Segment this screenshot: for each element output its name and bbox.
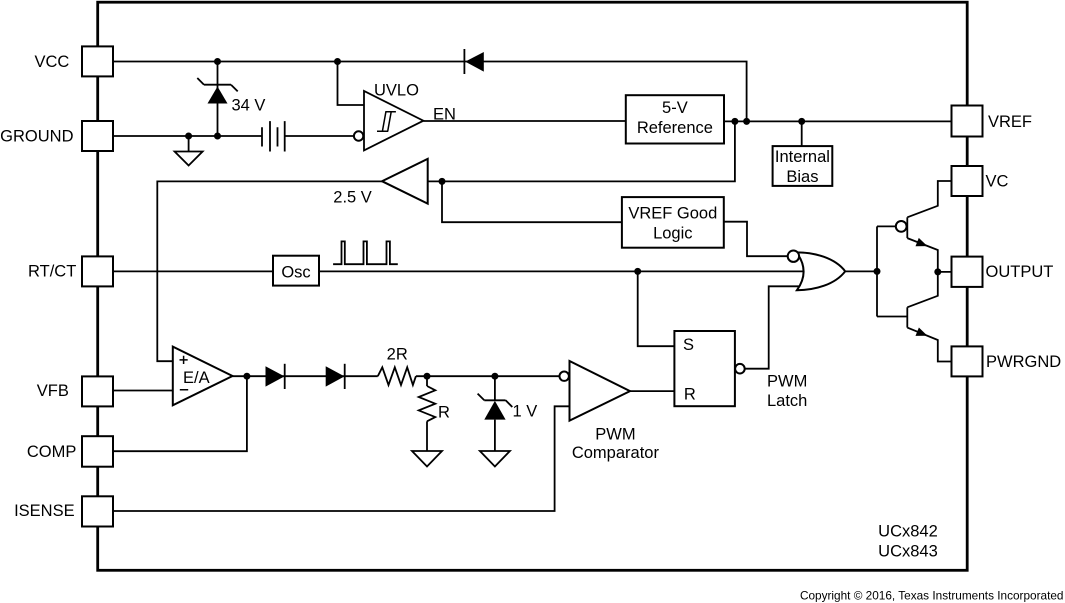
svg-text:Internal: Internal	[775, 148, 830, 166]
svg-text:RT/CT: RT/CT	[28, 263, 76, 281]
svg-text:OUTPUT: OUTPUT	[986, 263, 1054, 281]
svg-text:Comparator: Comparator	[572, 444, 660, 462]
svg-text:34 V: 34 V	[232, 96, 266, 114]
svg-text:Osc: Osc	[281, 263, 310, 281]
svg-text:PWM: PWM	[595, 425, 635, 443]
svg-text:ISENSE: ISENSE	[14, 502, 75, 520]
svg-text:PWRGND: PWRGND	[986, 353, 1061, 371]
svg-text:UCx843: UCx843	[878, 543, 938, 561]
svg-text:VREF Good: VREF Good	[628, 204, 717, 222]
svg-text:2.5 V: 2.5 V	[333, 189, 372, 207]
svg-text:Copyright © 2016, Texas Instru: Copyright © 2016, Texas Instruments Inco…	[800, 589, 1064, 603]
svg-text:GROUND: GROUND	[0, 128, 73, 146]
svg-text:R: R	[438, 404, 450, 422]
svg-text:2R: 2R	[387, 345, 408, 363]
svg-text:Logic: Logic	[653, 224, 692, 242]
svg-text:1 V: 1 V	[513, 403, 538, 421]
svg-text:COMP: COMP	[27, 443, 77, 461]
svg-text:Bias: Bias	[786, 168, 818, 186]
svg-text:VC: VC	[986, 173, 1009, 191]
svg-text:VCC: VCC	[34, 53, 69, 71]
svg-text:R: R	[684, 386, 696, 404]
svg-text:Latch: Latch	[767, 392, 807, 410]
svg-text:UCx842: UCx842	[878, 523, 938, 541]
svg-text:Reference: Reference	[637, 119, 713, 137]
svg-text:UVLO: UVLO	[374, 81, 419, 99]
svg-text:E/A: E/A	[183, 369, 210, 387]
svg-text:5-V: 5-V	[662, 99, 688, 117]
svg-text:S: S	[683, 336, 694, 354]
svg-text:PWM: PWM	[767, 372, 807, 390]
svg-text:EN: EN	[433, 105, 456, 123]
svg-text:VFB: VFB	[37, 382, 69, 400]
svg-text:VREF: VREF	[988, 113, 1032, 131]
